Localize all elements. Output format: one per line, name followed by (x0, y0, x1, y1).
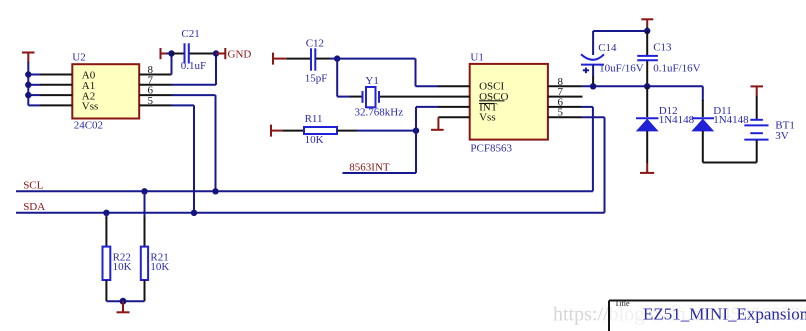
power bar (BT1 plus) (751, 86, 764, 95)
node A1 junction (25, 82, 31, 88)
svg-text:C21: C21 (181, 28, 199, 40)
node A2 junction (25, 92, 31, 98)
watermark (553, 304, 801, 326)
svg-text:GND: GND (228, 49, 252, 61)
node SDA/R22 junction (103, 210, 109, 216)
wire (to Y1 left) (337, 96, 351, 98)
node R11/INT junction (413, 127, 419, 133)
svg-text:5: 5 (148, 95, 154, 107)
IC U2 24C02 (72, 51, 139, 131)
wire (INT vertical) (415, 107, 417, 173)
wire (U2 pin8 up to C21 left) (171, 54, 173, 75)
svg-text:8563INT: 8563INT (349, 162, 390, 174)
wire (U1 pin6 right) (582, 106, 593, 108)
wire SCL net (16, 190, 593, 192)
svg-text:EZ51_MINI_Expansion: EZ51_MINI_Expansion (643, 305, 806, 324)
svg-text:Y1: Y1 (365, 75, 378, 87)
svg-text:1N4148: 1N4148 (713, 114, 749, 126)
wire (into OSCI pin) (416, 85, 440, 87)
wire (node to OSCI corner) (337, 58, 415, 60)
wire (U2 pin6 down to SCL) (215, 95, 217, 191)
pin (R22 bottom pin) (105, 280, 107, 301)
pin 7 U2 (139, 74, 171, 86)
node SDA/U2pin5 junction (191, 210, 197, 216)
capacitor C14 (581, 31, 644, 86)
power bar (pullup ground) (117, 301, 130, 312)
wire (node down to Y1) (336, 59, 338, 97)
node C21 left junction (168, 50, 174, 56)
node C12/Y1 junction (334, 55, 340, 61)
node SCL/R21 junction (141, 188, 147, 194)
svg-text:15pF: 15pF (305, 73, 328, 85)
svg-text:5: 5 (558, 107, 564, 119)
wire (U2 pin7 right) (172, 84, 217, 86)
svg-text:3V: 3V (775, 130, 789, 142)
svg-text:R11: R11 (305, 113, 323, 125)
svg-text:0.1uF: 0.1uF (181, 60, 206, 72)
pin 2 U2 A1 (40, 84, 72, 86)
node C13 bottom junction (644, 83, 650, 89)
svg-text:10K: 10K (113, 261, 132, 273)
pin U1 OSCI (438, 85, 469, 87)
svg-text:C14: C14 (598, 42, 617, 54)
wire (rail down to D11) (702, 86, 704, 101)
port GND (216, 48, 251, 61)
svg-text:32.768kHz: 32.768kHz (355, 106, 404, 118)
svg-text:U2: U2 (72, 51, 85, 63)
svg-text:24C02: 24C02 (74, 120, 103, 132)
capacitor C13 (637, 31, 700, 86)
wire (U2 pin5 down to SDA) (193, 105, 195, 212)
wire (down to OSCI row) (415, 59, 417, 87)
svg-text:10K: 10K (305, 134, 324, 146)
battery BT1 3V (744, 95, 795, 162)
wire (D11 bottom to battery bottom) (703, 162, 757, 164)
node SCL/U2pin6 junction (212, 188, 218, 194)
resistor R21 (141, 247, 170, 280)
node A0 junction (25, 71, 31, 77)
svg-text:Vss: Vss (479, 112, 496, 124)
pin 8 U2 (139, 64, 171, 76)
pin (R21 top pin) (144, 217, 146, 247)
svg-text:SCL: SCL (23, 180, 43, 192)
wire (U1 pin5 down to SDA) (604, 117, 606, 213)
svg-text:SDA: SDA (23, 201, 45, 213)
node C21 right junction (213, 50, 219, 56)
power bar P1 (U2 address pins) (22, 53, 35, 64)
pin U1 Vss (438, 116, 469, 118)
crystal Y1 (355, 75, 404, 119)
svg-text:U1: U1 (470, 51, 483, 63)
wire (C12 to node) (330, 58, 337, 60)
svg-text:C12: C12 (306, 38, 324, 50)
svg-text:Title: Title (615, 299, 631, 308)
capacitor C21 (172, 28, 217, 72)
title block (609, 299, 806, 331)
pin U1 OSCO (438, 96, 469, 98)
svg-text:0.1uF/16V: 0.1uF/16V (653, 63, 700, 75)
pin U1 INT (438, 106, 469, 108)
wire (into INT pin) (416, 106, 439, 108)
pin 6 U2 (139, 85, 171, 97)
wire SDA net (16, 212, 605, 214)
pin 7 U1 (548, 86, 583, 98)
wire (U2 pin7 up to C21 right) (215, 54, 217, 85)
svg-text:1N4148: 1N4148 (659, 114, 695, 126)
pin (R21 bottom pin) (144, 280, 146, 301)
wire (to Vss U2) (28, 104, 41, 106)
wire (to A2) (28, 94, 41, 96)
wire (Y1 right to OSCO pin) (380, 96, 439, 98)
power bar (D12 ground) (640, 163, 654, 173)
pin 3 U2 A2 (40, 94, 72, 96)
wire (bar to top rail) (646, 27, 648, 31)
power bar (U1 Vss ground) (431, 117, 444, 130)
capacitor C12 (287, 38, 330, 85)
wire (U2 pin6 right) (172, 94, 216, 96)
wire (port to C21 node) (167, 53, 172, 55)
wire (resistor gnd joining) (106, 300, 144, 302)
resistor R22 (103, 247, 132, 280)
wire (VCC rail pin8) (582, 85, 703, 87)
wire (U2 address bus vertical) (27, 62, 29, 105)
port terminal (C12 left) (273, 53, 287, 65)
IC U1 PCF8563 (470, 51, 548, 154)
pin 6 U1 (548, 96, 582, 108)
node resistor gnd junction (120, 298, 127, 305)
port terminal (C21 left) (161, 48, 167, 59)
diode D12 1N4148 (636, 86, 695, 163)
diode D11 1N4148 (692, 100, 750, 163)
svg-text:PCF8563: PCF8563 (470, 143, 512, 155)
wire (U1 pin6 down to SCL) (592, 107, 594, 191)
pin 1 U2 A0 (40, 74, 72, 76)
wire (U2 pin5 right) (172, 104, 195, 106)
wire (top rail) (593, 30, 647, 32)
pin 5 U1 (548, 107, 582, 119)
pin 5 U2 (139, 95, 171, 107)
resistor R11 (282, 113, 357, 146)
wire (U1 pin5 right) (582, 116, 605, 118)
pin 4 U2 Vss (40, 104, 72, 106)
wire (to A0) (28, 74, 41, 76)
wire (R21 top) (144, 191, 146, 218)
wire (8563INT net) (343, 172, 417, 174)
svg-text:10uF/16V: 10uF/16V (599, 63, 644, 75)
pin (R22 top pin) (105, 217, 107, 247)
svg-text:Vss: Vss (82, 101, 99, 113)
svg-text:C13: C13 (653, 41, 672, 53)
power bar (top VCC) (641, 19, 653, 28)
pin 8 U1 (548, 76, 582, 88)
wire (to A1) (28, 84, 41, 86)
wire (R22 top) (105, 213, 107, 218)
svg-text:10K: 10K (150, 261, 169, 273)
wire (R11 to INT node) (357, 130, 416, 132)
node C14 bottom junction (590, 83, 596, 89)
port terminal (R11 left) (271, 125, 282, 137)
node top rail junction (644, 28, 650, 34)
